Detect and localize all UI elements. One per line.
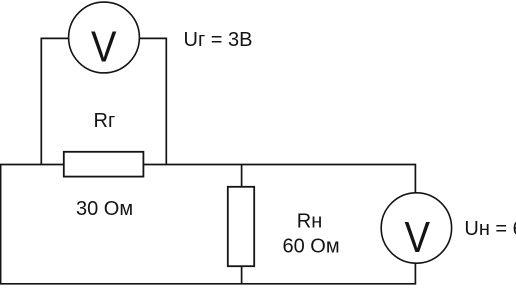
wire: left leg of voltmeter loop up to circle [41, 38, 69, 164]
svg-text:Uг = 3В: Uг = 3В [184, 29, 253, 51]
svg-text:Uн = 6В: Uн = 6В [464, 218, 516, 240]
svg-text:V: V [91, 23, 117, 72]
wire: top bus from left edge to right voltmeter drop [0, 165, 415, 195]
voltmeter V (right, across Rн) [381, 193, 451, 263]
wire: left edge vertical (clipped at image edge) [0, 165, 2, 284]
svg-text:60 Ом: 60 Ом [283, 236, 340, 258]
wire: Rн bottom lead [241, 266, 243, 284]
svg-text:Rн: Rн [297, 211, 323, 233]
svg-text:Rг: Rг [94, 110, 116, 132]
svg-text:30 Ом: 30 Ом [76, 198, 133, 220]
wire: bottom bus up to right voltmeter [0, 262, 415, 284]
wire: right leg of voltmeter loop down to top bus [139, 38, 166, 164]
resistor Rг (30 Ом, horizontal) [64, 152, 144, 177]
wire: Rн top lead [241, 165, 243, 188]
voltmeter V (left, across Rг) [69, 2, 140, 73]
svg-text:V: V [405, 213, 431, 262]
resistor Rн (60 Ом, vertical) [228, 187, 254, 266]
